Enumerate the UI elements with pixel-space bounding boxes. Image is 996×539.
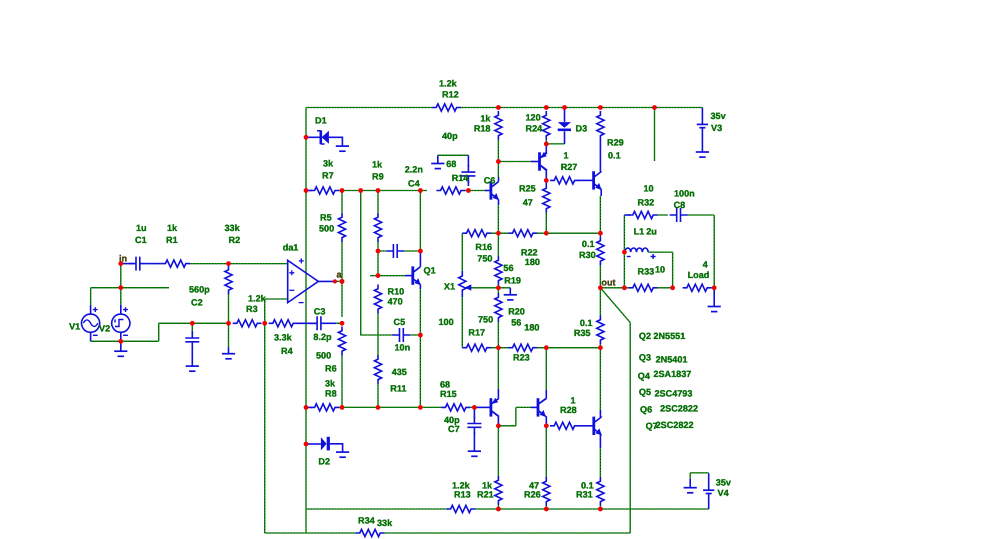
svg-text:C6: C6 (484, 176, 496, 186)
svg-text:750: 750 (477, 254, 492, 264)
svg-text:1: 1 (571, 396, 576, 406)
svg-text:in: in (119, 254, 127, 264)
svg-text:R24: R24 (526, 124, 544, 134)
svg-text:68: 68 (440, 380, 450, 390)
svg-text:1k: 1k (372, 160, 383, 170)
svg-text:10: 10 (655, 265, 665, 275)
svg-text:X1: X1 (444, 282, 455, 292)
svg-text:470: 470 (388, 297, 403, 307)
svg-text:33k: 33k (377, 518, 393, 528)
svg-text:2N5401: 2N5401 (656, 355, 688, 365)
svg-text:35v: 35v (716, 478, 732, 488)
svg-text:33k: 33k (225, 223, 241, 233)
svg-text:out: out (601, 278, 615, 288)
svg-text:R28: R28 (560, 405, 577, 415)
svg-text:2.2n: 2.2n (405, 165, 423, 175)
svg-text:R1: R1 (166, 235, 178, 245)
svg-text:120: 120 (526, 113, 541, 123)
svg-text:R5: R5 (320, 213, 332, 223)
svg-text:R26: R26 (524, 490, 541, 500)
svg-text:R29: R29 (607, 138, 624, 148)
svg-text:R18: R18 (474, 124, 491, 134)
svg-text:68: 68 (446, 159, 456, 169)
svg-text:R20: R20 (508, 307, 525, 317)
svg-text:R9: R9 (372, 172, 384, 182)
svg-text:3k: 3k (325, 379, 336, 389)
svg-text:56: 56 (503, 263, 513, 273)
svg-text:4: 4 (703, 260, 709, 270)
svg-text:C2: C2 (191, 298, 203, 308)
svg-text:C3: C3 (314, 307, 326, 317)
svg-text:R6: R6 (325, 364, 337, 374)
svg-text:35v: 35v (711, 111, 727, 121)
svg-text:Q2: Q2 (639, 331, 651, 341)
svg-text:R35: R35 (574, 328, 591, 338)
svg-text:R12: R12 (442, 90, 459, 100)
svg-text:R23: R23 (513, 353, 530, 363)
svg-text:40p: 40p (442, 131, 458, 141)
svg-text:C8: C8 (674, 200, 686, 210)
svg-text:C7: C7 (448, 424, 460, 434)
svg-text:56: 56 (511, 318, 521, 328)
svg-text:L1: L1 (634, 227, 645, 237)
svg-text:560p: 560p (189, 285, 210, 295)
svg-text:1u: 1u (136, 223, 147, 233)
svg-text:V4: V4 (718, 488, 730, 498)
svg-text:R14: R14 (452, 173, 470, 183)
svg-text:R16: R16 (475, 242, 492, 252)
svg-text:0.1: 0.1 (580, 318, 593, 328)
svg-text:R19: R19 (504, 276, 521, 286)
svg-text:da1: da1 (283, 243, 299, 253)
svg-text:D1: D1 (315, 116, 327, 126)
svg-text:10: 10 (644, 184, 654, 194)
svg-text:R8: R8 (325, 389, 337, 399)
svg-text:Q1: Q1 (424, 266, 436, 276)
svg-text:100n: 100n (674, 189, 695, 199)
svg-text:C4: C4 (408, 179, 421, 189)
svg-text:Q5: Q5 (639, 387, 651, 397)
svg-text:V3: V3 (711, 123, 722, 133)
svg-text:180: 180 (524, 323, 539, 333)
svg-text:Q4: Q4 (638, 371, 651, 381)
svg-text:R33: R33 (638, 267, 655, 277)
svg-text:2SC2822: 2SC2822 (656, 420, 694, 430)
svg-text:R13: R13 (454, 490, 471, 500)
svg-text:R22: R22 (521, 248, 538, 258)
svg-text:Q3: Q3 (639, 353, 651, 363)
svg-text:100: 100 (439, 317, 454, 327)
svg-text:R31: R31 (576, 490, 593, 500)
svg-text:1: 1 (564, 151, 569, 161)
svg-text:1k: 1k (167, 223, 178, 233)
svg-text:3.3k: 3.3k (274, 333, 293, 343)
svg-text:2N5551: 2N5551 (653, 331, 685, 341)
svg-text:2u: 2u (646, 227, 657, 237)
svg-text:D2: D2 (318, 457, 330, 467)
svg-text:2SC2822: 2SC2822 (660, 404, 698, 414)
svg-text:500: 500 (319, 224, 334, 234)
svg-text:47: 47 (523, 198, 533, 208)
svg-text:435: 435 (392, 367, 407, 377)
svg-text:Load: Load (688, 270, 710, 280)
svg-text:10n: 10n (395, 343, 411, 353)
svg-text:R4: R4 (281, 346, 294, 356)
svg-text:R32: R32 (638, 198, 655, 208)
svg-text:R17: R17 (468, 328, 485, 338)
svg-text:R34: R34 (358, 516, 376, 526)
svg-text:1.2k: 1.2k (439, 79, 458, 89)
svg-text:R30: R30 (579, 250, 596, 260)
svg-text:C5: C5 (394, 317, 406, 327)
svg-text:R11: R11 (390, 384, 406, 394)
svg-text:V2: V2 (99, 324, 110, 334)
svg-text:D3: D3 (576, 124, 588, 134)
svg-text:750: 750 (478, 315, 493, 325)
svg-text:R21: R21 (477, 490, 494, 500)
svg-text:0.1: 0.1 (608, 151, 621, 161)
svg-text:V1: V1 (69, 322, 80, 332)
svg-text:8.2p: 8.2p (313, 332, 332, 342)
svg-text:R15: R15 (440, 389, 457, 399)
svg-text:180: 180 (525, 257, 540, 267)
svg-text:Q6: Q6 (640, 405, 652, 415)
svg-text:1k: 1k (480, 114, 491, 124)
svg-text:0.1: 0.1 (582, 239, 595, 249)
svg-text:R7: R7 (322, 171, 334, 181)
svg-text:R10: R10 (388, 287, 405, 297)
svg-text:R25: R25 (519, 184, 536, 194)
svg-text:1.2k: 1.2k (248, 294, 267, 304)
svg-text:R3: R3 (246, 304, 258, 314)
svg-text:2SC4793: 2SC4793 (655, 389, 693, 399)
svg-text:R2: R2 (229, 235, 241, 245)
svg-text:2SA1837: 2SA1837 (653, 369, 691, 379)
svg-text:R27: R27 (561, 162, 578, 172)
svg-text:C1: C1 (135, 235, 147, 245)
svg-text:500: 500 (316, 351, 331, 361)
svg-text:3k: 3k (323, 159, 334, 169)
